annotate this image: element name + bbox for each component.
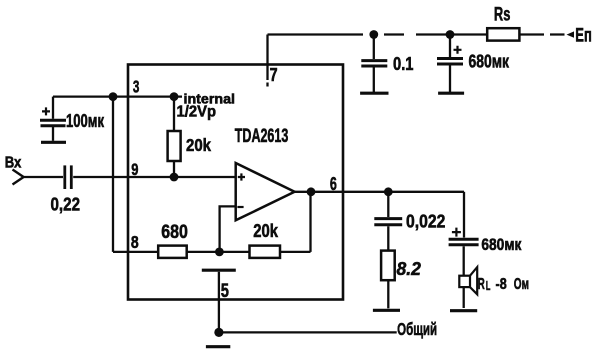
svg-text:7: 7: [270, 64, 278, 85]
resistor 8.2 (vertical): [373, 251, 400, 311]
terminal +En arrow: [567, 31, 575, 37]
svg-text:680мк: 680мк: [481, 236, 522, 254]
node junction pin3 outer: [109, 92, 118, 101]
svg-text:-8: -8: [496, 276, 507, 293]
node junction on supply at C 680mk: [446, 30, 455, 39]
capacitor 100mk (polarized): [40, 97, 66, 143]
svg-text:0.1: 0.1: [393, 54, 414, 74]
wire pin7 riser: [266, 35, 268, 87]
capacitor 0.1: [360, 35, 388, 94]
wire output pin6: [295, 191, 464, 193]
node junction feedback: [215, 248, 224, 257]
wire ground rail (Obshchiy): [219, 331, 397, 333]
svg-text:1/2Vp: 1/2Vp: [177, 103, 217, 120]
ground terminator bar: [206, 345, 230, 348]
wire pin3 row: [53, 95, 182, 97]
svg-text:5: 5: [221, 280, 229, 302]
svg-text:6: 6: [330, 173, 337, 194]
svg-text:Rs: Rs: [494, 4, 511, 26]
wire input row pin9: [24, 176, 63, 178]
svg-text:Eп: Eп: [575, 26, 592, 47]
wire feedback vertical to output: [309, 192, 311, 252]
capacitor 0.22: [65, 165, 72, 189]
IC U1 TDA2613 box: [128, 65, 343, 300]
svg-text:20k: 20k: [186, 135, 211, 155]
node junction output zobel: [384, 187, 393, 196]
svg-text:9: 9: [131, 160, 138, 179]
capacitor 0,022: [374, 192, 402, 251]
capacitor 680mk output (polarized): [449, 228, 479, 276]
resistor 680: [158, 246, 187, 258]
op-amp U1 triangle: [236, 163, 295, 220]
node junction ground: [214, 328, 223, 337]
svg-text:Ом: Ом: [514, 276, 529, 293]
wire pin5 to ground rail: [218, 272, 220, 333]
svg-text:Общий: Общий: [397, 319, 437, 339]
input arrow chevron: [13, 170, 24, 185]
pin 5 bar (internal): [202, 269, 236, 272]
op-amp plus input mark: [238, 173, 245, 180]
node junction on supply at C 0.1: [369, 30, 378, 39]
capacitor 680mk (top, polarized): [437, 35, 464, 94]
node junction output feedback: [307, 187, 316, 196]
svg-text:R: R: [478, 276, 485, 293]
svg-text:680мк: 680мк: [469, 52, 510, 72]
speaker RL: [450, 267, 477, 311]
wire supply rail top: [268, 33, 565, 35]
wire vertical outer (pin3 node down to pin8 row): [112, 97, 114, 252]
svg-text:3: 3: [133, 77, 140, 97]
wire speaker branch vertical: [463, 192, 465, 238]
svg-text:20k: 20k: [253, 221, 279, 241]
resistor 20k feedback: [250, 246, 281, 258]
op-amp minus input mark: [237, 206, 243, 208]
svg-text:0,22: 0,22: [51, 193, 81, 214]
svg-text:0,022: 0,022: [406, 212, 445, 232]
svg-text:TDA2613: TDA2613: [235, 126, 288, 147]
node junction 20k bottom on pin9 row: [170, 173, 179, 182]
wire pin9 into opamp: [73, 176, 236, 178]
svg-text:680: 680: [161, 222, 188, 243]
wire inverting input: [220, 206, 236, 252]
svg-text:L: L: [486, 279, 491, 293]
svg-text:100мк: 100мк: [66, 111, 105, 131]
svg-text:8: 8: [131, 232, 139, 252]
svg-text:8.2: 8.2: [397, 259, 421, 279]
resistor Rs: [487, 28, 519, 40]
wire pin8 feedback row: [113, 251, 311, 253]
resistor 20k upper (vertical): [168, 97, 181, 177]
node junction pin3 inner (20k top): [170, 92, 179, 101]
